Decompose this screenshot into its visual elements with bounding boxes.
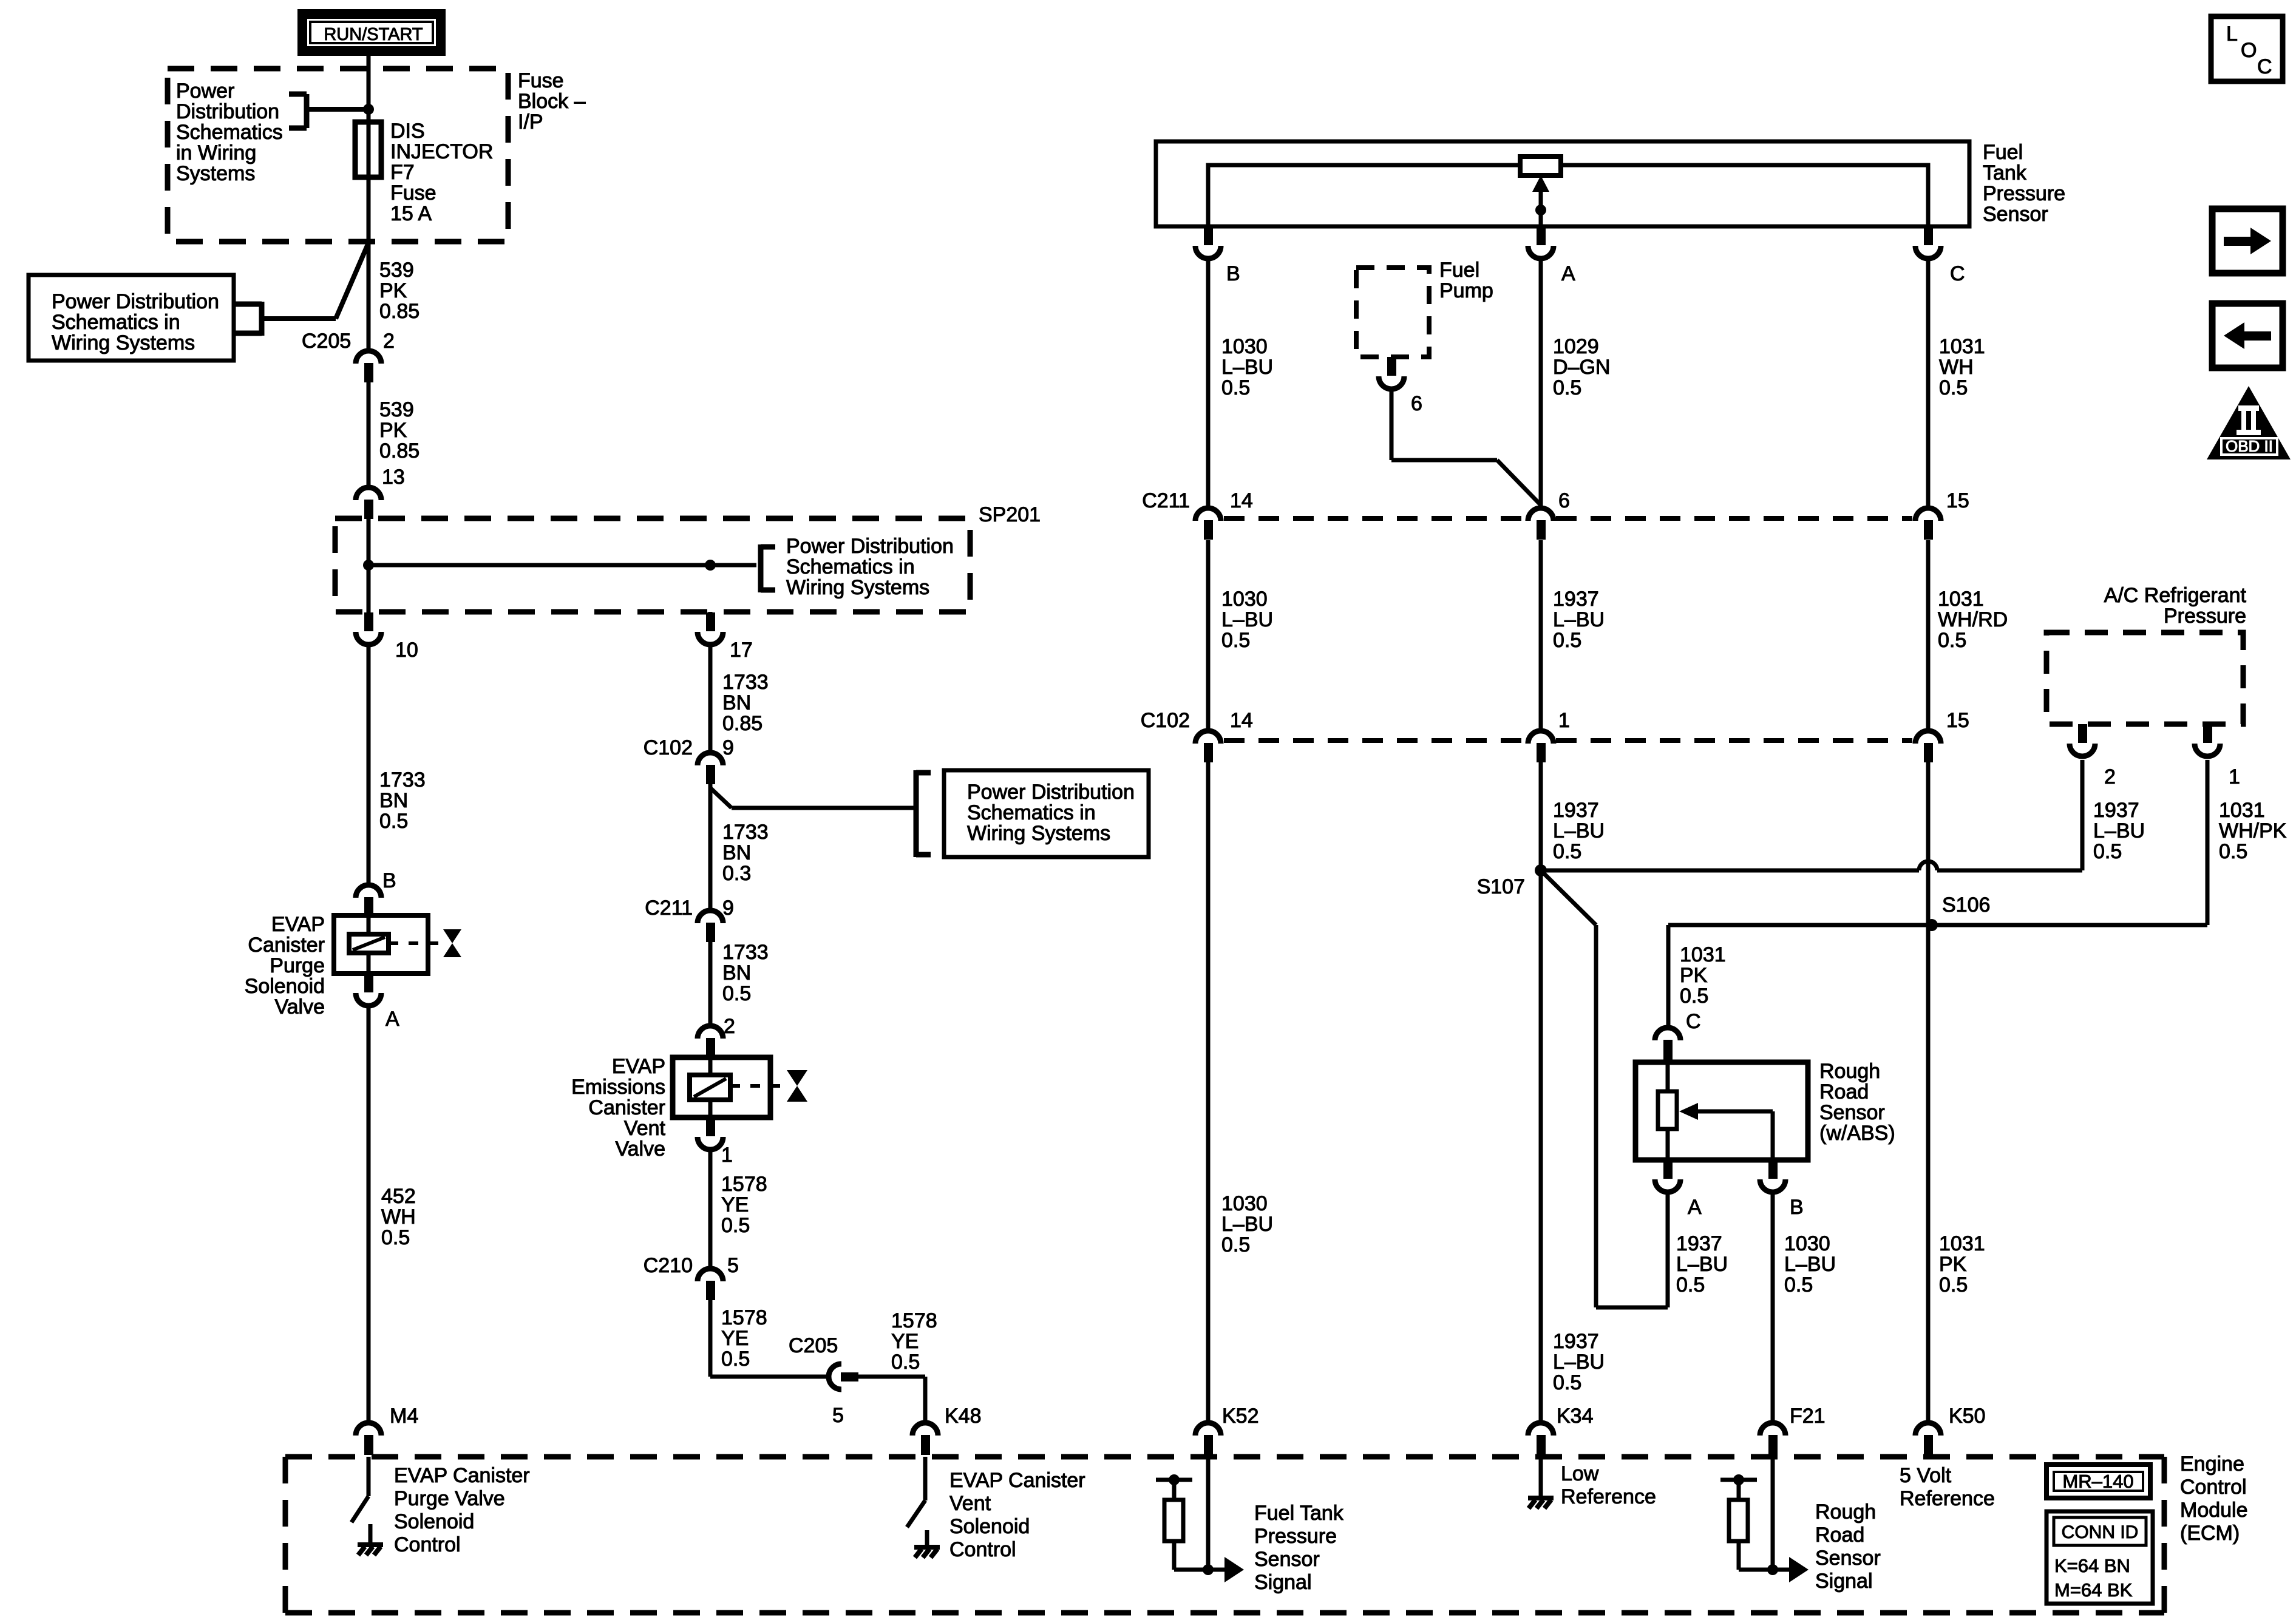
svg-text:Solenoid: Solenoid bbox=[245, 975, 325, 998]
svg-text:L–BU: L–BU bbox=[2093, 819, 2145, 842]
svg-text:0.5: 0.5 bbox=[1784, 1273, 1813, 1297]
svg-text:Rough: Rough bbox=[1819, 1060, 1880, 1083]
svg-text:0.5: 0.5 bbox=[2219, 840, 2247, 863]
svg-text:Block –: Block – bbox=[518, 90, 586, 113]
svg-text:WH: WH bbox=[381, 1205, 416, 1229]
svg-text:452: 452 bbox=[381, 1185, 416, 1208]
svg-text:1031: 1031 bbox=[1938, 588, 1984, 611]
connector C210 pin 5 bbox=[698, 1269, 723, 1281]
svg-text:Wiring Systems: Wiring Systems bbox=[967, 822, 1110, 845]
connector ID table bbox=[2046, 1511, 2153, 1604]
connector ECM pin K50 bbox=[1915, 1423, 1941, 1436]
svg-text:BN: BN bbox=[722, 961, 751, 985]
wire pin10 to purge valve bbox=[367, 645, 371, 883]
svg-text:1030: 1030 bbox=[1221, 588, 1268, 611]
svg-text:0.5: 0.5 bbox=[1938, 629, 1966, 652]
svg-text:10: 10 bbox=[395, 639, 418, 662]
svg-text:1733: 1733 bbox=[379, 768, 426, 792]
svg-text:PK: PK bbox=[379, 419, 407, 442]
connector FTPS pin A bbox=[1537, 226, 1546, 245]
wire FTPS C to C211 bbox=[1926, 260, 1931, 506]
valve linkage dashes (purge) bbox=[389, 941, 441, 945]
svg-text:15: 15 bbox=[1946, 709, 1969, 732]
connector C211 pin 14 bbox=[1195, 508, 1221, 521]
svg-text:WH/RD: WH/RD bbox=[1938, 608, 2008, 631]
svg-text:MR–140: MR–140 bbox=[2062, 1471, 2133, 1492]
node splice S106 bbox=[1926, 919, 1938, 931]
svg-text:L–BU: L–BU bbox=[1553, 608, 1605, 631]
svg-text:C: C bbox=[2257, 55, 2272, 78]
svg-text:L: L bbox=[2226, 22, 2238, 46]
svg-text:5: 5 bbox=[727, 1254, 739, 1277]
svg-text:0.5: 0.5 bbox=[1553, 840, 1581, 863]
connector ECM pin K48 bbox=[912, 1423, 938, 1436]
svg-text:0.5: 0.5 bbox=[1939, 376, 1968, 399]
connector C211 pin 9 bbox=[698, 910, 723, 923]
svg-text:A/C Refrigerant: A/C Refrigerant bbox=[2104, 584, 2247, 607]
fuse block - I/P dashed box bbox=[168, 69, 508, 242]
connector vent valve pin 2 bbox=[698, 1026, 723, 1039]
EVAP emissions canister vent valve box bbox=[673, 1057, 770, 1117]
svg-text:I/P: I/P bbox=[518, 110, 543, 134]
svg-text:EVAP Canister: EVAP Canister bbox=[949, 1469, 1085, 1492]
wire B C211 to C102 bbox=[1206, 540, 1211, 728]
connector below SP201 left pin 10 bbox=[364, 612, 373, 631]
svg-text:L–BU: L–BU bbox=[1221, 356, 1273, 379]
ECM fuel tank pressure sensor signal circuit bbox=[1206, 1457, 1211, 1570]
wire branch diagonal to note bbox=[710, 788, 732, 808]
wire A C211 to C102 bbox=[1539, 540, 1543, 728]
svg-text:Power Distribution: Power Distribution bbox=[967, 781, 1135, 804]
svg-text:Solenoid: Solenoid bbox=[949, 1515, 1030, 1538]
svg-text:1: 1 bbox=[1558, 709, 1570, 732]
svg-text:A: A bbox=[385, 1008, 399, 1031]
boxed note Power Distribution Schematics in Wiring Systems (C102) bbox=[944, 770, 1149, 857]
svg-text:0.5: 0.5 bbox=[721, 1214, 750, 1237]
icon arrow next page bbox=[2212, 209, 2283, 273]
svg-text:539: 539 bbox=[379, 398, 414, 421]
svg-text:WH/PK: WH/PK bbox=[2219, 819, 2287, 842]
node splice dot left bbox=[363, 560, 374, 571]
svg-text:L–BU: L–BU bbox=[1676, 1253, 1728, 1276]
svg-text:Purge Valve: Purge Valve bbox=[394, 1487, 505, 1510]
svg-text:Pump: Pump bbox=[1439, 279, 1493, 302]
rough road sensor box bbox=[1635, 1062, 1808, 1160]
svg-text:C205: C205 bbox=[789, 1334, 838, 1357]
svg-text:RUN/START: RUN/START bbox=[324, 25, 423, 44]
node splice dot right bbox=[705, 560, 716, 571]
svg-text:2: 2 bbox=[724, 1015, 735, 1038]
svg-text:1031: 1031 bbox=[1680, 943, 1726, 966]
wire FTPS B to C211 bbox=[1206, 260, 1211, 506]
splice pack SP201 dashed box bbox=[335, 518, 970, 612]
connector C102 pin 14 bbox=[1195, 731, 1221, 744]
svg-text:K50: K50 bbox=[1949, 1405, 1986, 1428]
svg-text:SP201: SP201 bbox=[979, 503, 1041, 526]
connector vent valve pin 1 bbox=[706, 1117, 715, 1136]
wire SP201 down (col2) bbox=[708, 612, 713, 612]
rough road potentiometer resistor bbox=[1658, 1091, 1677, 1129]
svg-text:Emissions: Emissions bbox=[571, 1076, 665, 1099]
connector ECM pin K52 bbox=[1195, 1423, 1221, 1436]
svg-text:5 Volt: 5 Volt bbox=[1900, 1464, 1952, 1487]
sensor wiper arrow up bbox=[1532, 175, 1549, 192]
svg-text:0.5: 0.5 bbox=[1680, 985, 1708, 1008]
wire vent valve to C210 bbox=[708, 1150, 713, 1266]
svg-text:Reference: Reference bbox=[1561, 1485, 1656, 1508]
svg-text:5: 5 bbox=[832, 1404, 844, 1427]
svg-text:K34: K34 bbox=[1557, 1405, 1594, 1428]
svg-text:Schematics: Schematics bbox=[176, 121, 283, 144]
icon arrow previous page bbox=[2212, 303, 2283, 368]
wire C211-9 to vent valve bbox=[708, 942, 713, 1024]
solid box Power Distribution Schematics in Wiring Systems (left) bbox=[29, 275, 234, 361]
svg-text:14: 14 bbox=[1230, 489, 1253, 512]
wire SP201 bus bbox=[369, 563, 756, 568]
node sensor wiper junction bbox=[1535, 205, 1546, 215]
svg-text:C: C bbox=[1686, 1010, 1701, 1033]
svg-text:0.3: 0.3 bbox=[722, 862, 751, 885]
svg-text:C102: C102 bbox=[644, 736, 693, 759]
connector row C102 dashed line bbox=[1224, 738, 1525, 743]
svg-text:M=64 BK: M=64 BK bbox=[2054, 1579, 2133, 1601]
svg-text:(w/ABS): (w/ABS) bbox=[1819, 1122, 1895, 1145]
svg-text:Power: Power bbox=[176, 80, 234, 103]
svg-text:Pressure: Pressure bbox=[2164, 605, 2246, 628]
svg-text:1578: 1578 bbox=[721, 1306, 767, 1329]
svg-text:1030: 1030 bbox=[1221, 1192, 1268, 1215]
wire FTPS A to C211 bbox=[1539, 260, 1543, 506]
svg-text:K=64 BN: K=64 BN bbox=[2054, 1555, 2130, 1576]
svg-text:Fuel Tank: Fuel Tank bbox=[1254, 1502, 1344, 1525]
engine control module dashed box bbox=[285, 1454, 2164, 1460]
svg-text:Module: Module bbox=[2180, 1499, 2248, 1522]
valve symbol (purge) bbox=[443, 929, 461, 943]
svg-text:0.5: 0.5 bbox=[1553, 376, 1581, 399]
svg-text:L–BU: L–BU bbox=[1784, 1253, 1836, 1276]
svg-text:Control: Control bbox=[2180, 1476, 2247, 1499]
wire C C102 through S106 to K50 bbox=[1926, 762, 1931, 1420]
connector FTPS pin C bbox=[1924, 226, 1933, 245]
wire C C211 to C102 bbox=[1926, 540, 1931, 728]
svg-text:0.5: 0.5 bbox=[1221, 629, 1250, 652]
connector FTPS pin B bbox=[1204, 226, 1213, 245]
wire S106 to rough road pin C bbox=[1666, 925, 1671, 1026]
svg-text:0.5: 0.5 bbox=[721, 1347, 750, 1371]
ECM internal switch for vent control bbox=[923, 1457, 928, 1500]
svg-text:YE: YE bbox=[891, 1330, 919, 1353]
connector fuel pump pin 6 bbox=[1387, 357, 1396, 376]
svg-text:L–BU: L–BU bbox=[1553, 819, 1605, 842]
connector C102 pin 9 bbox=[698, 753, 723, 765]
ECM rough road sensor signal circuit bbox=[1771, 1457, 1775, 1570]
svg-text:0.5: 0.5 bbox=[1553, 1371, 1581, 1394]
rough road wiper arrow bbox=[1679, 1103, 1698, 1120]
svg-text:A: A bbox=[1561, 262, 1575, 285]
svg-text:in Wiring: in Wiring bbox=[176, 141, 256, 164]
svg-text:Canister: Canister bbox=[588, 1096, 665, 1119]
svg-text:1578: 1578 bbox=[721, 1173, 767, 1196]
svg-text:Solenoid: Solenoid bbox=[394, 1510, 474, 1533]
svg-text:Valve: Valve bbox=[615, 1137, 665, 1161]
wire rough road B to F21 bbox=[1771, 1192, 1775, 1420]
svg-text:Control: Control bbox=[949, 1538, 1016, 1561]
svg-text:1031: 1031 bbox=[1939, 335, 1985, 358]
connector purge valve pin A bbox=[364, 974, 373, 992]
wire S107 branch to rough road pin A bbox=[1541, 870, 1596, 925]
svg-text:Fuse: Fuse bbox=[518, 69, 564, 92]
svg-text:Vent: Vent bbox=[949, 1492, 991, 1515]
connector ECM pin F21 bbox=[1760, 1423, 1785, 1436]
ground EVAP purge control bbox=[369, 1524, 373, 1545]
connector C211 pin 6 bbox=[1528, 508, 1554, 521]
bracket to SP201 note bbox=[758, 544, 764, 592]
svg-text:Canister: Canister bbox=[248, 934, 325, 957]
svg-text:Tank: Tank bbox=[1983, 161, 2027, 185]
svg-text:Road: Road bbox=[1815, 1524, 1864, 1547]
wire C210 to C205 bbox=[708, 1300, 713, 1377]
svg-text:0.85: 0.85 bbox=[379, 300, 419, 323]
connector C205 pin 2 bbox=[356, 351, 381, 364]
battery feed box RUN/START bbox=[297, 9, 446, 56]
svg-text:1733: 1733 bbox=[722, 821, 769, 844]
svg-text:A: A bbox=[1688, 1196, 1702, 1219]
svg-text:Signal: Signal bbox=[1815, 1570, 1873, 1593]
wire A C102 through S107 to K34 bbox=[1539, 762, 1543, 1420]
svg-text:Sensor: Sensor bbox=[1983, 203, 2048, 226]
svg-text:Reference: Reference bbox=[1900, 1487, 1995, 1510]
svg-text:C211: C211 bbox=[1142, 489, 1190, 512]
svg-text:PK: PK bbox=[379, 279, 407, 302]
svg-text:0.5: 0.5 bbox=[2093, 840, 2122, 863]
connector C102 pin 15 bbox=[1915, 731, 1941, 744]
svg-text:INJECTOR: INJECTOR bbox=[390, 140, 493, 163]
svg-text:Rough: Rough bbox=[1815, 1500, 1876, 1524]
wire fuel pump to C211-6 bbox=[1390, 389, 1394, 460]
svg-text:0.85: 0.85 bbox=[722, 712, 763, 735]
fuse F7 DIS INJECTOR 15A symbol bbox=[355, 122, 381, 177]
svg-text:B: B bbox=[1226, 262, 1240, 285]
wire hop over C column bbox=[1919, 861, 1937, 870]
svg-text:0.5: 0.5 bbox=[381, 1226, 410, 1249]
svg-text:Sensor: Sensor bbox=[1815, 1547, 1881, 1570]
svg-text:Fuse: Fuse bbox=[390, 181, 436, 205]
svg-text:Sensor: Sensor bbox=[1819, 1101, 1885, 1124]
svg-text:1: 1 bbox=[2229, 765, 2240, 788]
connector rough road pin C bbox=[1655, 1028, 1680, 1040]
svg-text:BN: BN bbox=[722, 691, 751, 714]
connector row C211 dashed line bbox=[1224, 516, 1525, 521]
svg-text:0.5: 0.5 bbox=[379, 810, 408, 833]
svg-text:C211: C211 bbox=[645, 897, 693, 920]
connector A/C pin 1 bbox=[2203, 724, 2212, 743]
svg-text:Vent: Vent bbox=[624, 1117, 666, 1140]
ground EVAP vent control bbox=[925, 1530, 929, 1547]
solenoid coil symbol (purge valve) bbox=[349, 934, 389, 953]
svg-text:Schematics in: Schematics in bbox=[967, 801, 1096, 824]
svg-text:0.5: 0.5 bbox=[1221, 376, 1250, 399]
svg-text:(ECM): (ECM) bbox=[2180, 1522, 2240, 1545]
svg-text:Fuel: Fuel bbox=[1439, 259, 1479, 282]
svg-text:K52: K52 bbox=[1222, 1405, 1259, 1428]
svg-text:EVAP Canister: EVAP Canister bbox=[394, 1464, 530, 1487]
svg-text:Distribution: Distribution bbox=[176, 100, 279, 123]
svg-text:14: 14 bbox=[1230, 709, 1253, 732]
connector C211 pin 15 bbox=[1915, 508, 1941, 521]
svg-text:Power Distribution: Power Distribution bbox=[52, 290, 219, 313]
svg-text:1733: 1733 bbox=[722, 671, 769, 694]
wire B C102 to K52 bbox=[1206, 762, 1211, 1420]
bracket to power distribution note bbox=[304, 94, 310, 128]
wire C102-9 down bbox=[708, 784, 713, 908]
connector below SP201 pin 17 bbox=[706, 612, 715, 631]
svg-text:1: 1 bbox=[721, 1144, 733, 1167]
svg-text:Low: Low bbox=[1561, 1462, 1599, 1485]
wire pin17 to C102-9 bbox=[708, 645, 713, 750]
svg-text:0.5: 0.5 bbox=[1939, 1273, 1968, 1297]
ECM internal switch for purge control bbox=[367, 1457, 371, 1496]
svg-text:2: 2 bbox=[383, 330, 395, 353]
svg-text:9: 9 bbox=[722, 736, 734, 759]
svg-text:0.85: 0.85 bbox=[379, 439, 419, 463]
icon OBD II triangle bbox=[2207, 386, 2291, 459]
svg-text:M4: M4 bbox=[390, 1405, 418, 1428]
svg-text:0.5: 0.5 bbox=[1676, 1273, 1705, 1297]
svg-text:S106: S106 bbox=[1942, 893, 1990, 917]
svg-text:B: B bbox=[382, 869, 396, 892]
sensor element symbol bbox=[1520, 157, 1561, 175]
svg-text:Pressure: Pressure bbox=[1254, 1525, 1337, 1548]
svg-text:CONN ID: CONN ID bbox=[2062, 1522, 2139, 1542]
svg-text:1937: 1937 bbox=[2093, 799, 2139, 822]
svg-text:0.5: 0.5 bbox=[1221, 1233, 1250, 1256]
svg-text:DIS: DIS bbox=[390, 120, 425, 143]
svg-text:Schematics in: Schematics in bbox=[52, 311, 180, 334]
svg-text:C102: C102 bbox=[1141, 709, 1190, 732]
svg-text:B: B bbox=[1790, 1196, 1804, 1219]
wire into SP201 bbox=[367, 519, 371, 612]
svg-text:L–BU: L–BU bbox=[1221, 608, 1273, 631]
valve symbol (vent) bbox=[787, 1070, 807, 1086]
solenoid coil symbol (vent valve) bbox=[690, 1075, 730, 1100]
svg-text:F7: F7 bbox=[390, 161, 415, 184]
svg-text:PK: PK bbox=[1939, 1253, 1967, 1276]
icon LOC box bbox=[2211, 16, 2283, 81]
svg-text:1030: 1030 bbox=[1221, 335, 1268, 358]
svg-text:13: 13 bbox=[382, 466, 405, 489]
svg-text:O: O bbox=[2241, 39, 2257, 62]
svg-text:C205: C205 bbox=[302, 330, 351, 353]
wire C205-2 to C205-13 bbox=[367, 382, 371, 485]
ECM low reference ground bbox=[1539, 1457, 1543, 1498]
svg-text:L–BU: L–BU bbox=[1221, 1213, 1273, 1236]
svg-text:Systems: Systems bbox=[176, 162, 255, 185]
svg-text:15: 15 bbox=[1946, 489, 1969, 512]
svg-text:15 A: 15 A bbox=[390, 202, 432, 225]
svg-text:17: 17 bbox=[730, 639, 753, 662]
svg-text:C210: C210 bbox=[644, 1254, 693, 1277]
svg-text:S107: S107 bbox=[1477, 875, 1525, 898]
wire A/C pin1 down bbox=[2206, 760, 2210, 925]
svg-text:539: 539 bbox=[379, 259, 414, 282]
svg-text:EVAP: EVAP bbox=[271, 913, 325, 936]
svg-text:PK: PK bbox=[1680, 964, 1708, 987]
connector purge valve pin B bbox=[356, 885, 381, 898]
valve linkage dashes (vent) bbox=[730, 1084, 784, 1088]
bracket from left note box to wire bbox=[259, 302, 265, 336]
svg-text:Sensor: Sensor bbox=[1254, 1548, 1320, 1571]
svg-text:1733: 1733 bbox=[722, 941, 769, 964]
svg-text:D–GN: D–GN bbox=[1553, 356, 1610, 379]
svg-text:K48: K48 bbox=[945, 1405, 982, 1428]
bracket to C102 note box bbox=[914, 770, 919, 857]
connector C102 pin 1 bbox=[1528, 731, 1554, 744]
svg-text:Pressure: Pressure bbox=[1983, 182, 2065, 205]
svg-text:1937: 1937 bbox=[1676, 1232, 1722, 1255]
wire purge valve to M4 bbox=[367, 1006, 371, 1420]
svg-text:1937: 1937 bbox=[1553, 799, 1599, 822]
node junction at fuse top bbox=[363, 104, 374, 115]
svg-text:1578: 1578 bbox=[891, 1309, 937, 1332]
A/C refrigerant pressure dashed box bbox=[2046, 632, 2243, 724]
connector C205 pin 5 (horizontal) bbox=[829, 1364, 841, 1389]
fuel tank pressure sensor box bbox=[1156, 141, 1969, 226]
svg-text:0.5: 0.5 bbox=[891, 1351, 920, 1374]
svg-text:Schematics in: Schematics in bbox=[786, 555, 915, 578]
EVAP canister purge solenoid valve box bbox=[334, 915, 428, 974]
grid reference box MR-140 bbox=[2046, 1465, 2150, 1498]
svg-text:YE: YE bbox=[721, 1327, 749, 1350]
svg-text:YE: YE bbox=[721, 1193, 749, 1216]
wire RUN/START down through fuse block bbox=[367, 56, 371, 348]
node splice S107 bbox=[1535, 864, 1547, 876]
svg-text:Power Distribution: Power Distribution bbox=[786, 535, 954, 558]
wire A/C pin2 down bbox=[2080, 760, 2085, 870]
connector A/C pin 2 bbox=[2078, 724, 2087, 743]
svg-text:1029: 1029 bbox=[1553, 335, 1599, 358]
svg-text:1031: 1031 bbox=[2219, 799, 2265, 822]
svg-text:Valve: Valve bbox=[274, 995, 325, 1019]
svg-text:0.5: 0.5 bbox=[1553, 629, 1581, 652]
wire diagonal into C205 bbox=[336, 243, 369, 319]
svg-text:L–BU: L–BU bbox=[1553, 1351, 1605, 1374]
svg-text:6: 6 bbox=[1411, 392, 1422, 415]
svg-text:Fuel: Fuel bbox=[1983, 141, 2023, 164]
svg-text:Wiring Systems: Wiring Systems bbox=[786, 576, 929, 599]
connector rough road pin B bbox=[1768, 1160, 1778, 1179]
svg-text:Purge: Purge bbox=[270, 954, 325, 977]
svg-text:6: 6 bbox=[1558, 489, 1570, 512]
svg-text:EVAP: EVAP bbox=[612, 1055, 665, 1078]
connector ECM pin K34 bbox=[1528, 1423, 1554, 1436]
svg-text:Control: Control bbox=[394, 1533, 461, 1556]
wire C205 to K48 bbox=[858, 1375, 925, 1379]
connector rough road pin A bbox=[1663, 1160, 1673, 1179]
svg-text:Road: Road bbox=[1819, 1080, 1869, 1103]
svg-text:WH: WH bbox=[1939, 356, 1974, 379]
fuel pump dashed box bbox=[1356, 268, 1429, 357]
svg-text:OBD II: OBD II bbox=[2226, 437, 2273, 455]
svg-text:9: 9 bbox=[722, 897, 734, 920]
svg-text:Engine: Engine bbox=[2180, 1453, 2244, 1476]
svg-text:C: C bbox=[1950, 262, 1965, 285]
connector pin 13 bbox=[356, 487, 381, 500]
svg-text:Wiring Systems: Wiring Systems bbox=[52, 331, 195, 354]
svg-text:BN: BN bbox=[379, 789, 408, 812]
svg-text:Signal: Signal bbox=[1254, 1571, 1312, 1594]
svg-text:1030: 1030 bbox=[1784, 1232, 1830, 1255]
svg-text:2: 2 bbox=[2104, 765, 2116, 788]
